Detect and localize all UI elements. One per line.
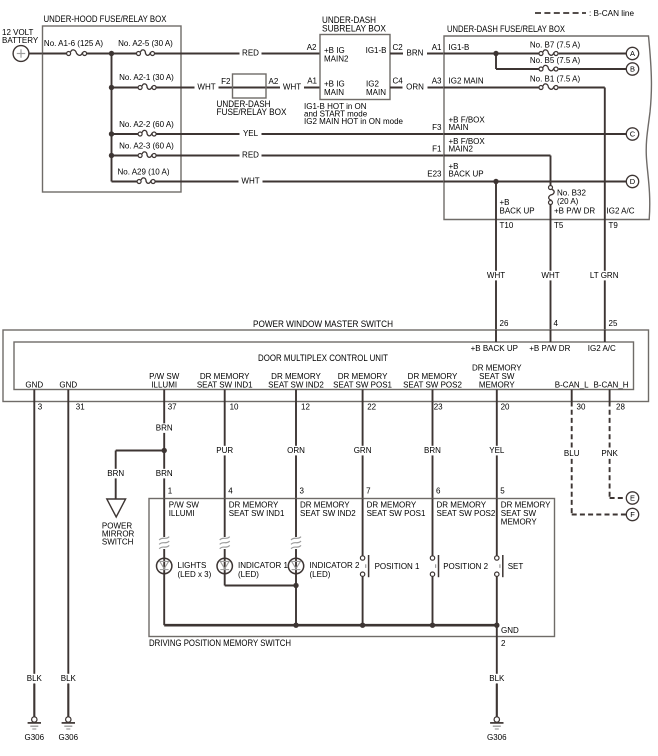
junction row1 <box>109 51 114 56</box>
svg-text:WHT: WHT <box>283 83 301 92</box>
svg-text:DRIVING POSITION MEMORY SWITCH: DRIVING POSITION MEMORY SWITCH <box>149 638 291 649</box>
svg-text:10: 10 <box>230 403 239 412</box>
svg-text:B-CAN_L: B-CAN_L <box>555 381 589 390</box>
svg-text:IG2 A/C: IG2 A/C <box>588 344 616 353</box>
wire PUR pin10 <box>224 402 226 499</box>
wire to fuse B5 <box>495 54 497 70</box>
svg-text:YEL: YEL <box>243 129 259 138</box>
wire POSITION 1 down <box>362 576 364 625</box>
pin 25 wire into unit <box>604 330 606 342</box>
switch POSITION 1 <box>360 556 364 560</box>
svg-text:PNK: PNK <box>601 449 618 458</box>
svg-text:ILLUMI: ILLUMI <box>169 509 195 518</box>
svg-text:POWER WINDOW MASTER SWITCH: POWER WINDOW MASTER SWITCH <box>253 319 393 330</box>
connector A <box>626 47 638 59</box>
svg-text:20: 20 <box>501 403 510 412</box>
wire GND pin31 <box>67 402 69 717</box>
svg-text:(LED): (LED) <box>238 570 259 579</box>
fuse No. B7 (7.5 A) <box>543 50 554 55</box>
wire F1 down <box>444 155 551 157</box>
wire BRN pin37 <box>163 402 165 499</box>
svg-text:ORN: ORN <box>406 83 424 92</box>
resistor IND1 <box>220 537 230 540</box>
wire BLU B-CAN_L dashed <box>571 402 573 515</box>
fuse No. B1 (7.5 A) <box>543 84 554 89</box>
svg-text:YEL: YEL <box>489 446 505 455</box>
junction row4 <box>109 153 114 158</box>
svg-text:BLK: BLK <box>27 674 43 683</box>
connector F <box>626 508 638 520</box>
svg-text:PUR: PUR <box>216 446 233 455</box>
svg-text:T10: T10 <box>500 221 514 230</box>
svg-text:A2: A2 <box>307 43 317 52</box>
svg-text:No. A2-3 (60 A): No. A2-3 (60 A) <box>119 141 174 150</box>
svg-text:T5: T5 <box>554 221 564 230</box>
B-CAN line legend <box>535 12 586 14</box>
junction bus 2 <box>360 623 365 628</box>
svg-text:DOOR MULTIPLEX CONTROL UNIT: DOOR MULTIPLEX CONTROL UNIT <box>258 353 388 364</box>
svg-text:INDICATOR 2: INDICATOR 2 <box>310 561 360 570</box>
svg-text:No. A2-5 (30 A): No. A2-5 (30 A) <box>118 39 173 48</box>
LED IND2 <box>288 558 303 573</box>
svg-text:: B-CAN line: : B-CAN line <box>589 9 635 18</box>
pin 4 wire into unit <box>550 330 552 342</box>
fuse No. A2-2 (60 A) <box>142 130 152 135</box>
ground G306 mid <box>67 684 69 717</box>
connector D <box>626 175 638 187</box>
pin stub 8 <box>571 390 573 402</box>
fuse No. A29 (10 A) <box>141 178 151 183</box>
svg-text:A1: A1 <box>307 77 317 86</box>
svg-text:GND: GND <box>59 381 77 390</box>
svg-text:22: 22 <box>367 403 376 412</box>
LED IND1 <box>217 558 232 573</box>
wire WHT row2 segs <box>181 87 320 89</box>
svg-text:MEMORY: MEMORY <box>501 518 538 527</box>
wire row5 in box <box>112 181 138 183</box>
svg-text:BRN: BRN <box>107 469 124 478</box>
svg-text:23: 23 <box>434 403 443 412</box>
svg-text:BLK: BLK <box>61 674 77 683</box>
wire LIGHTS top <box>163 499 165 538</box>
svg-text:SEAT SW POS1: SEAT SW POS1 <box>333 381 392 390</box>
wire SET down <box>496 576 498 625</box>
power mirror switch arrow <box>107 499 126 517</box>
svg-text:(20 A): (20 A) <box>557 197 579 206</box>
pin stub 4 <box>295 390 297 402</box>
svg-text:BLK: BLK <box>489 674 505 683</box>
svg-text:RED: RED <box>242 151 259 160</box>
wire IG2 MAIN row <box>444 87 539 89</box>
svg-text:IG2 A/C: IG2 A/C <box>607 207 635 216</box>
svg-text:No. A1-6 (125 A): No. A1-6 (125 A) <box>44 39 103 48</box>
svg-text:G306: G306 <box>59 733 79 742</box>
svg-text:3: 3 <box>38 403 43 412</box>
svg-text:MEMORY: MEMORY <box>479 381 516 390</box>
svg-text:12: 12 <box>301 403 310 412</box>
svg-text:BLU: BLU <box>564 449 580 458</box>
wire LIGHTS down <box>163 574 165 626</box>
svg-text:+B BACK UP: +B BACK UP <box>471 344 518 353</box>
svg-text:A: A <box>630 49 635 58</box>
svg-text:WHT: WHT <box>541 271 559 280</box>
wire IND1 top <box>224 499 226 538</box>
wire row3 in box <box>112 133 139 135</box>
svg-text:28: 28 <box>616 403 625 412</box>
wire branch to mirror switch <box>116 450 165 452</box>
pin 26 wire into unit <box>495 330 497 342</box>
junction IG1-B <box>493 51 498 56</box>
svg-text:MAIN: MAIN <box>324 88 344 97</box>
svg-text:BRN: BRN <box>156 424 173 433</box>
svg-text:MAIN2: MAIN2 <box>449 145 474 154</box>
svg-text:POSITION 1: POSITION 1 <box>375 562 420 571</box>
pin stub 2 <box>163 390 165 402</box>
junction row2 <box>109 85 114 90</box>
svg-text:INDICATOR 1: INDICATOR 1 <box>238 561 288 570</box>
svg-text:C: C <box>630 130 636 139</box>
svg-text:F: F <box>630 510 635 519</box>
svg-text:T9: T9 <box>609 221 619 230</box>
svg-text:SEAT SW POS2: SEAT SW POS2 <box>403 381 462 390</box>
wire IND2 down <box>295 574 297 626</box>
wire POSITION 2 down <box>432 576 434 625</box>
junction IND <box>293 583 298 588</box>
wire BRN C2 to A1 <box>390 53 444 55</box>
svg-text:WHT: WHT <box>241 177 259 186</box>
svg-text:A3: A3 <box>432 77 442 86</box>
svg-text:IG2 MAIN: IG2 MAIN <box>449 77 484 86</box>
fuse No. A2-1 (30 A) <box>142 84 152 89</box>
wire BRN pin23 <box>432 402 434 499</box>
svg-text:SEAT SW IND2: SEAT SW IND2 <box>300 509 356 518</box>
svg-text:(LED): (LED) <box>310 570 331 579</box>
svg-text:UNDER-HOOD FUSE/RELAY BOX: UNDER-HOOD FUSE/RELAY BOX <box>44 14 168 25</box>
svg-text:SEAT SW POS1: SEAT SW POS1 <box>367 509 426 518</box>
svg-text:MAIN2: MAIN2 <box>324 55 349 64</box>
svg-text:SET: SET <box>508 562 524 571</box>
junction E23 <box>493 179 498 184</box>
svg-text:1: 1 <box>168 487 173 496</box>
svg-text:4: 4 <box>554 319 559 328</box>
svg-text:SEAT SW IND1: SEAT SW IND1 <box>229 509 285 518</box>
svg-text:LIGHTS: LIGHTS <box>178 561 207 570</box>
svg-text:SWITCH: SWITCH <box>102 538 134 547</box>
wire POSITION 1 top <box>362 499 364 556</box>
svg-text:SEAT SW IND2: SEAT SW IND2 <box>268 381 324 390</box>
LED LIGHTS <box>157 558 172 573</box>
wire E23 to D <box>444 181 626 183</box>
svg-text:BRN: BRN <box>156 469 173 478</box>
svg-text:BRN: BRN <box>407 49 424 58</box>
svg-text:E: E <box>630 494 635 503</box>
wire WHT T5 <box>550 220 552 331</box>
svg-text:A1: A1 <box>432 43 442 52</box>
svg-text:F1: F1 <box>432 145 442 154</box>
svg-text:No. B7 (7.5 A): No. B7 (7.5 A) <box>530 40 581 49</box>
wire GRN pin22 <box>362 402 364 499</box>
svg-text:25: 25 <box>609 319 618 328</box>
fuse No. A2-3 (60 A) <box>142 152 152 157</box>
under-dash subrelay box <box>320 35 390 100</box>
switch SET <box>495 556 499 560</box>
pin stub 9 <box>609 390 611 402</box>
pin stub 6 <box>432 390 434 402</box>
ground G306 left <box>33 684 35 717</box>
resistor LIGHTS <box>159 537 169 540</box>
svg-text:SEAT SW IND1: SEAT SW IND1 <box>197 381 253 390</box>
wire RED row1 <box>181 53 320 55</box>
junction bus GND <box>494 623 499 628</box>
wire battery to box <box>29 53 43 55</box>
svg-text:GND: GND <box>501 626 519 635</box>
wire YEL pin20 <box>496 402 498 499</box>
under-hood fuse/relay box <box>43 26 182 192</box>
svg-text:D: D <box>630 177 636 186</box>
wire POSITION 2 top <box>432 499 434 556</box>
svg-text:No. B5 (7.5 A): No. B5 (7.5 A) <box>530 56 581 65</box>
switch POSITION 2 <box>430 556 434 560</box>
fuse No. B32 (20 A) <box>549 190 554 201</box>
svg-text:No. A29 (10 A): No. A29 (10 A) <box>117 167 169 176</box>
connector B <box>626 63 638 75</box>
svg-text:MAIN: MAIN <box>366 88 386 97</box>
svg-text:37: 37 <box>168 403 177 412</box>
wire IND2 top <box>295 499 297 538</box>
svg-text:5: 5 <box>500 487 505 496</box>
wire SET top <box>496 499 498 556</box>
wire WHT row5 <box>181 181 444 183</box>
svg-text:G306: G306 <box>487 733 507 742</box>
svg-text:MAIN: MAIN <box>449 123 469 132</box>
wire ORN C4 to A3 <box>390 87 444 89</box>
wire ORN pin12 <box>295 402 297 499</box>
wire PNK B-CAN_H dashed <box>609 402 611 499</box>
resistor IND2 <box>291 537 301 540</box>
wire IND1 down <box>224 574 226 586</box>
bus vertical <box>111 54 113 182</box>
wire row4 in box <box>112 155 139 157</box>
wire WHT T10 <box>495 220 497 331</box>
svg-text:+B P/W DR: +B P/W DR <box>529 344 570 353</box>
svg-text:G306: G306 <box>25 733 45 742</box>
svg-text:UNDER-DASH FUSE/RELAY BOX: UNDER-DASH FUSE/RELAY BOX <box>447 24 566 35</box>
pin stub 0 <box>33 390 35 402</box>
wire T10 inside <box>495 182 497 220</box>
svg-text:GND: GND <box>25 381 43 390</box>
wire IG1-B row <box>444 53 539 55</box>
svg-text:LT GRN: LT GRN <box>590 271 619 280</box>
svg-text:BATTERY: BATTERY <box>2 36 39 45</box>
svg-text:A2: A2 <box>269 77 279 86</box>
svg-text:3: 3 <box>300 487 305 496</box>
svg-text:WHT: WHT <box>197 83 215 92</box>
connector E <box>626 492 638 504</box>
svg-text:No. B1 (7.5 A): No. B1 (7.5 A) <box>530 74 581 83</box>
junction row3 <box>109 131 114 136</box>
fuse No. B5 (7.5 A) <box>543 65 554 70</box>
connector C <box>626 128 638 140</box>
svg-text:ILLUMI: ILLUMI <box>151 381 177 390</box>
wire LT GRN T9 <box>604 220 606 331</box>
under-dash fuse/relay box (small) <box>233 74 267 98</box>
svg-text:F2: F2 <box>221 77 231 86</box>
wire RED row4 <box>181 155 444 157</box>
svg-text:30: 30 <box>577 403 586 412</box>
wire IND1 mid <box>224 549 226 574</box>
svg-text:+B P/W DR: +B P/W DR <box>554 207 595 216</box>
wire LIGHTS mid <box>163 549 165 574</box>
wire row1 in box <box>43 53 67 55</box>
svg-text:E23: E23 <box>427 170 442 179</box>
pin stub 5 <box>362 390 364 402</box>
wire GND exit <box>496 625 498 716</box>
fuse No. A1-6 (125 A) <box>71 50 83 55</box>
svg-text:IG2 MAIN HOT in ON mode: IG2 MAIN HOT in ON mode <box>304 117 404 126</box>
svg-text:No. A2-1 (30 A): No. A2-1 (30 A) <box>119 73 174 82</box>
svg-text:31: 31 <box>76 403 85 412</box>
svg-text:IG1-B: IG1-B <box>366 46 387 55</box>
svg-text:WHT: WHT <box>487 271 505 280</box>
wire IND2 mid <box>295 549 297 574</box>
svg-text:F3: F3 <box>432 123 442 132</box>
svg-text:BACK UP: BACK UP <box>500 207 535 216</box>
svg-text:2: 2 <box>501 639 506 648</box>
svg-text:GRN: GRN <box>354 446 372 455</box>
wire F3 to C <box>444 133 626 135</box>
svg-text:POSITION 2: POSITION 2 <box>443 562 488 571</box>
driving position memory switch box <box>149 499 555 637</box>
svg-text:RED: RED <box>242 49 259 58</box>
junction bus 1 <box>293 623 298 628</box>
power window master switch box <box>3 330 649 402</box>
under-dash fuse/relay box (main) <box>444 36 651 220</box>
ground G306 right <box>496 684 498 717</box>
svg-text:B: B <box>630 65 635 74</box>
junction BRN <box>162 448 167 453</box>
battery 12V <box>13 46 29 62</box>
svg-text:SUBRELAY BOX: SUBRELAY BOX <box>322 24 387 35</box>
svg-text:No. A2-2 (60 A): No. A2-2 (60 A) <box>119 120 174 129</box>
wire row2 in box <box>112 87 139 89</box>
ground bus <box>164 624 497 627</box>
svg-text:7: 7 <box>366 487 371 496</box>
wire YEL row3 <box>181 133 444 135</box>
svg-text:6: 6 <box>436 487 441 496</box>
svg-text:4: 4 <box>228 487 233 496</box>
pin stub 7 <box>496 390 498 402</box>
svg-text:SEAT SW POS2: SEAT SW POS2 <box>437 509 496 518</box>
pin stub 3 <box>224 390 226 402</box>
svg-text:IG1-B: IG1-B <box>449 43 470 52</box>
door multiplex control unit box <box>14 342 634 390</box>
svg-text:BACK UP: BACK UP <box>449 170 484 179</box>
wire GND pin3 <box>33 402 35 717</box>
svg-text:B-CAN_H: B-CAN_H <box>593 381 628 390</box>
fuse No. A2-5 (30 A) <box>141 50 151 55</box>
svg-text:BRN: BRN <box>424 446 441 455</box>
junction bus 3 <box>430 623 435 628</box>
svg-text:ORN: ORN <box>287 446 305 455</box>
svg-text:FUSE/RELAY BOX: FUSE/RELAY BOX <box>217 107 288 118</box>
svg-text:C4: C4 <box>393 77 404 86</box>
svg-text:26: 26 <box>500 319 509 328</box>
pin stub 1 <box>67 390 69 402</box>
svg-text:(LED x 3): (LED x 3) <box>178 570 212 579</box>
svg-text:C2: C2 <box>393 43 404 52</box>
